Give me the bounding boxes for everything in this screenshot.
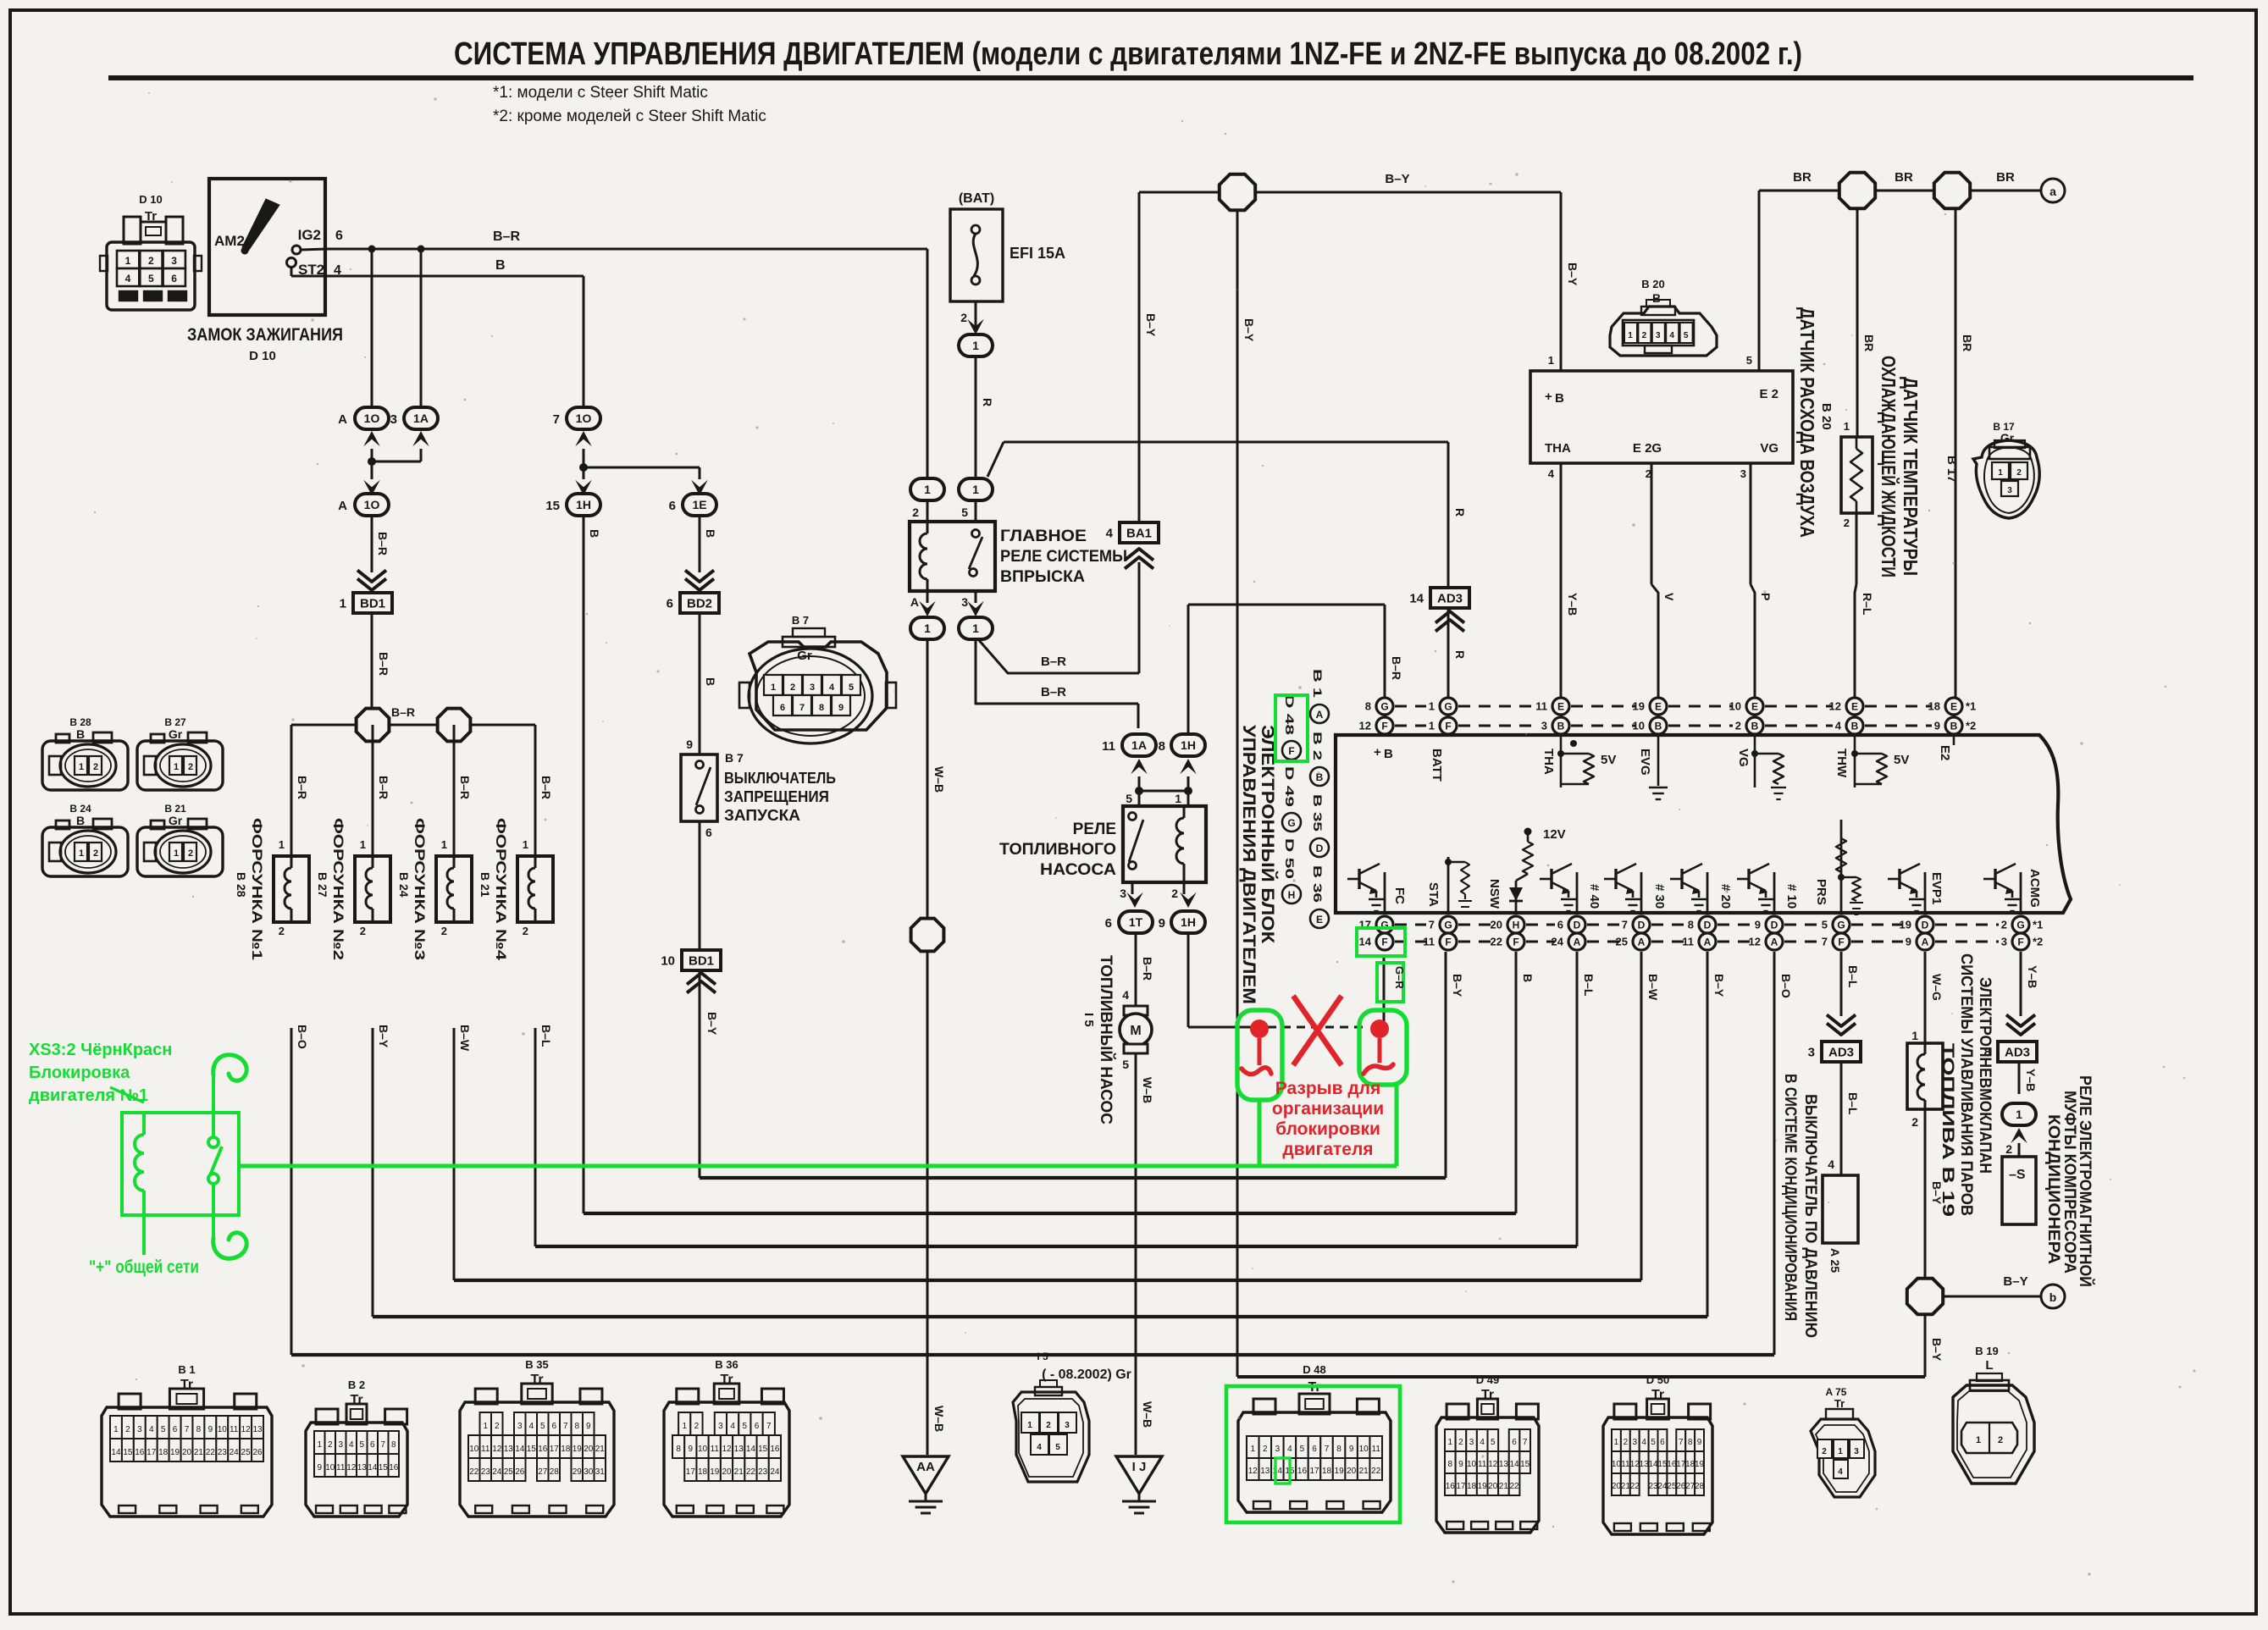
svg-text:6: 6: [1512, 1438, 1517, 1447]
svg-text:8: 8: [1448, 1460, 1453, 1469]
svg-text:B: B: [1652, 291, 1661, 305]
svg-text:2: 2: [360, 925, 366, 937]
wire R horizontal to AD3: [1004, 441, 1448, 444]
svg-text:5: 5: [1055, 1443, 1060, 1452]
svg-text:В 24: В 24: [397, 872, 411, 898]
svg-text:PRS: PRS: [1814, 879, 1828, 905]
svg-text:5: 5: [1746, 354, 1752, 367]
wire junction below 7(1O): [579, 449, 700, 472]
svg-text:22: 22: [1630, 1482, 1640, 1491]
svg-text:9: 9: [838, 703, 844, 713]
svg-text:2: 2: [1735, 720, 1741, 732]
svg-text:2: 2: [1844, 517, 1850, 529]
svg-text:18: 18: [1322, 1467, 1332, 1476]
svg-text:5: 5: [743, 1422, 748, 1431]
svg-text:E: E: [1950, 701, 1957, 713]
svg-text:УПРАВЛЕНИЯ ДВИГАТЕЛЕМ: УПРАВЛЕНИЯ ДВИГАТЕЛЕМ: [1239, 725, 1258, 1004]
svg-text:4: 4: [1106, 526, 1114, 540]
air flow sensor pin numbers: [1548, 354, 1752, 480]
svg-text:1A: 1A: [413, 412, 429, 425]
svg-text:21: 21: [1499, 1482, 1509, 1491]
connector oval 11(1A): [1102, 734, 1156, 756]
wire B-L to pressure switch: [1828, 1062, 1860, 1175]
wire bus B (ST2 to NSW): [584, 952, 1535, 1213]
connector face B27: [137, 716, 223, 790]
svg-text:B–Y: B–Y: [1566, 262, 1579, 286]
injector №3 (В 24): [436, 856, 472, 922]
svg-text:*2: *2: [2033, 936, 2043, 948]
wire to compressor clutch: [2005, 1142, 2019, 1157]
junction box 6 BD2: [667, 593, 719, 613]
svg-text:AM2: AM2: [214, 233, 245, 249]
svg-text:6: 6: [171, 273, 177, 285]
svg-text:17: 17: [550, 1445, 560, 1454]
svg-text:D 10: D 10: [249, 349, 276, 363]
svg-text:14: 14: [1510, 1460, 1520, 1469]
svg-text:E: E: [1655, 701, 1662, 713]
svg-text:3: 3: [810, 682, 815, 693]
arrow under oval A(1O): [363, 431, 380, 446]
svg-text:"+" общей сети: "+" общей сети: [89, 1257, 199, 1277]
svg-text:19: 19: [1478, 1482, 1488, 1491]
svg-text:*1: модели с Steer Shift Matic: *1: модели с Steer Shift Matic: [493, 84, 708, 102]
svg-text:B–R: B–R: [493, 229, 520, 244]
svg-text:3: 3: [2007, 486, 2012, 495]
wire branch to oval 3-1A: [418, 246, 425, 409]
svg-text:10: 10: [698, 1445, 708, 1454]
svg-text:1: 1: [1448, 1438, 1453, 1447]
fuel pump caption: [1081, 955, 1115, 1124]
wire B-Y bottom horizontal: [1237, 1375, 1925, 1379]
svg-text:13: 13: [1499, 1460, 1509, 1469]
wire B-R to fuel pump: [1122, 933, 1154, 1006]
svg-text:V: V: [1662, 593, 1676, 601]
svg-text:W–B: W–B: [1141, 1401, 1154, 1428]
svg-text:20: 20: [1347, 1467, 1357, 1476]
wire Y-B to oval: [2019, 1062, 2038, 1094]
svg-text:Tr: Tr: [720, 1373, 733, 1387]
svg-text:5: 5: [1651, 1438, 1656, 1447]
svg-text:B: B: [1316, 771, 1324, 783]
green wire horizontal: [239, 1164, 1397, 1169]
svg-text:A 75: A 75: [1826, 1386, 1847, 1398]
svg-text:Tr: Tr: [1481, 1388, 1494, 1402]
svg-text:РЕЛЕ СИСТЕМЫ: РЕЛЕ СИСТЕМЫ: [1000, 548, 1127, 566]
svg-text:НАСОСА: НАСОСА: [1040, 861, 1116, 879]
chevron above BD2: [685, 570, 714, 590]
svg-text:VG: VG: [1736, 749, 1751, 767]
svg-text:8: 8: [1159, 739, 1165, 754]
svg-text:16: 16: [538, 1445, 548, 1454]
svg-text:ДАТЧИК ТЕМПЕРАТУРЫ: ДАТЧИК ТЕМПЕРАТУРЫ: [1900, 377, 1922, 576]
svg-text:Блокировка: Блокировка: [29, 1064, 130, 1082]
svg-text:F: F: [2017, 937, 2023, 948]
svg-text:6: 6: [1660, 1438, 1665, 1447]
wire to injector 3 pin 1: [441, 725, 472, 856]
svg-text:16: 16: [770, 1445, 780, 1454]
svg-text:EVG: EVG: [1638, 749, 1652, 776]
svg-text:B: B: [1521, 974, 1535, 982]
wire B down to oval 7(1O): [583, 276, 585, 408]
svg-text:22: 22: [1510, 1482, 1520, 1491]
connector oval 9(1H): [1159, 911, 1205, 933]
svg-text:12: 12: [346, 1463, 357, 1473]
svg-text:A: A: [1638, 937, 1646, 948]
wire P VG to ECU: [1751, 463, 1773, 698]
svg-text:D 49: D 49: [1283, 766, 1297, 807]
svg-text:27: 27: [538, 1467, 548, 1477]
green wire vertical right: [1395, 1085, 1399, 1166]
coolant temperature sensor resistor (B17): [1841, 437, 1872, 513]
ECU VG load resistor: [1751, 733, 1786, 799]
svg-text:17: 17: [147, 1448, 157, 1457]
svg-text:6: 6: [1557, 919, 1563, 931]
svg-text:F: F: [1381, 721, 1387, 732]
wire bus B-Y (injector2 to #20): [373, 952, 1726, 1317]
svg-text:B–R: B–R: [539, 776, 553, 799]
svg-text:3: 3: [390, 412, 397, 427]
wire V E2G to ECU: [1651, 463, 1676, 698]
connector oval relay pinA: [910, 617, 944, 639]
wire B from ST2: [325, 258, 584, 276]
svg-text:BD2: BD2: [687, 596, 712, 611]
svg-text:26: 26: [1676, 1482, 1686, 1491]
green break box right: [1359, 1010, 1407, 1085]
fuel pump relay caption: [999, 821, 1116, 879]
wire from injector 3 pin 2: [441, 925, 472, 1052]
svg-text:AD3: AD3: [1828, 1045, 1854, 1059]
svg-text:4: 4: [1838, 1467, 1843, 1477]
green highlight box D48 F: [1275, 695, 1308, 761]
wire B-R down to ECU +B: [1385, 605, 1403, 698]
svg-text:B 7: B 7: [725, 751, 744, 765]
junction octagon on injector bus B: [438, 709, 471, 742]
svg-text:19: 19: [170, 1448, 180, 1457]
svg-text:28: 28: [550, 1467, 560, 1477]
connector face A75: [1811, 1386, 1875, 1497]
junction octagon BR 1: [1839, 173, 1875, 208]
svg-text:2: 2: [1911, 1115, 1918, 1129]
svg-text:14: 14: [746, 1445, 756, 1454]
svg-text:30: 30: [584, 1467, 594, 1477]
svg-text:20: 20: [1488, 1482, 1498, 1491]
svg-text:1: 1: [924, 622, 931, 635]
wire oval to relay box: [927, 500, 976, 522]
svg-text:Gr: Gr: [169, 727, 183, 741]
ECU driver #30: [1604, 864, 1641, 913]
svg-text:9: 9: [689, 1445, 694, 1454]
green break box left: [1237, 1010, 1282, 1100]
svg-text:МУФТЫ КОМПРЕССОРА: МУФТЫ КОМПРЕССОРА: [2061, 1091, 2078, 1274]
wire IG2 down to main relay: [927, 249, 929, 477]
svg-text:15: 15: [379, 1463, 389, 1473]
svg-text:11: 11: [1621, 1460, 1630, 1469]
wire bus B-Y (inhibit switch to STA): [700, 952, 1464, 1178]
svg-text:В 27: В 27: [316, 872, 329, 898]
svg-text:B: B: [1751, 721, 1759, 732]
svg-text:Tr: Tr: [180, 1378, 193, 1392]
svg-text:B 35: B 35: [525, 1358, 548, 1371]
svg-text:ТОПЛИВНЫЙ НАСОС: ТОПЛИВНЫЙ НАСОС: [1097, 955, 1115, 1124]
svg-text:13: 13: [252, 1425, 263, 1434]
svg-text:15: 15: [758, 1445, 768, 1454]
svg-text:G: G: [1287, 817, 1295, 829]
svg-text:R: R: [1453, 508, 1467, 517]
svg-text:2: 2: [1046, 1421, 1051, 1430]
ECU box (электронный блок управления двигателем): [1336, 735, 2071, 913]
svg-text:D 48: D 48: [1283, 694, 1297, 735]
svg-text:14: 14: [368, 1463, 378, 1473]
svg-text:20: 20: [722, 1467, 732, 1477]
wire R down to AD3 14: [1448, 442, 1467, 588]
wire from injector 2 pin 2: [360, 925, 390, 1048]
svg-text:4: 4: [125, 273, 131, 285]
svg-text:4: 4: [1828, 1158, 1834, 1171]
svg-text:1: 1: [1998, 468, 2003, 478]
svg-text:E: E: [1851, 701, 1858, 713]
wire to 6(1E): [691, 467, 708, 495]
svg-text:12: 12: [1488, 1460, 1498, 1469]
connector face B24: [42, 803, 128, 876]
arrow under 8(1H): [1180, 759, 1197, 774]
chevron below BA1: [1125, 549, 1153, 569]
svg-text:ФОРСУНКА №1: ФОРСУНКА №1: [249, 818, 265, 960]
junction box 4 BA1: [1106, 522, 1159, 543]
svg-text:24: 24: [492, 1467, 502, 1477]
svg-text:E2: E2: [1938, 745, 1952, 760]
svg-text:23: 23: [481, 1467, 491, 1477]
svg-text:D 10: D 10: [139, 193, 162, 206]
svg-text:11: 11: [1372, 1445, 1381, 1454]
wire B-R relay out lower: [976, 639, 1138, 728]
svg-text:*2: *2: [1966, 720, 1976, 732]
svg-text:B: B: [704, 529, 717, 538]
svg-text:9: 9: [1458, 1460, 1463, 1469]
svg-text:+: +: [1545, 390, 1552, 404]
injector №2 (В 27): [355, 856, 390, 922]
svg-text:R: R: [981, 398, 994, 406]
svg-text:BD1: BD1: [360, 596, 385, 611]
wire B-Y main vertical: [1237, 212, 1256, 1377]
air flow sensor box (датчик расхода воздуха B20): [1530, 371, 1793, 463]
svg-text:8: 8: [1336, 1445, 1341, 1454]
svg-text:12V: 12V: [1543, 827, 1566, 842]
wire bus B-W (injector3 to #30): [454, 952, 1660, 1280]
svg-text:I 5: I 5: [1081, 1013, 1096, 1027]
svg-text:ACMG: ACMG: [2027, 869, 2042, 908]
svg-text:18: 18: [1685, 1460, 1695, 1469]
air flow sensor label: [1796, 307, 1834, 538]
svg-text:3: 3: [1740, 467, 1746, 480]
ignition lock caption: [187, 325, 343, 363]
svg-text:A: A: [1922, 937, 1929, 948]
ECU bottom terminals: [1359, 916, 2044, 950]
svg-text:27: 27: [1685, 1482, 1695, 1491]
ECU bottom pin names: [1392, 869, 2042, 909]
svg-text:7: 7: [1622, 919, 1628, 931]
svg-text:9: 9: [1349, 1445, 1354, 1454]
label G-R: [1393, 966, 1406, 989]
ECU top pin names: [1374, 745, 1952, 782]
chevron above AD3 8: [2006, 1014, 2035, 1035]
connector oval A(1O) lower: [338, 494, 389, 516]
svg-text:8: 8: [391, 1440, 396, 1450]
svg-text:B 20: B 20: [1641, 278, 1664, 290]
svg-text:D 48: D 48: [1303, 1363, 1325, 1376]
svg-text:11: 11: [481, 1445, 490, 1454]
red X mark: [1293, 996, 1341, 1065]
chevron below 10 BD1: [687, 973, 716, 993]
svg-text:2: 2: [125, 1425, 130, 1434]
svg-text:3: 3: [1120, 887, 1126, 900]
svg-text:B–Y: B–Y: [705, 1012, 719, 1036]
svg-text:1H: 1H: [576, 498, 591, 511]
green relay (блокировка двигателя): [122, 1113, 239, 1215]
svg-text:E 2: E 2: [1759, 387, 1778, 401]
svg-text:I J: I J: [1132, 1460, 1147, 1474]
svg-text:11: 11: [711, 1445, 720, 1454]
svg-text:Y–B: Y–B: [2026, 965, 2039, 988]
svg-text:B 36: B 36: [715, 1358, 738, 1371]
svg-text:24: 24: [770, 1467, 780, 1477]
ECU driver #40: [1540, 864, 1577, 913]
svg-text:20: 20: [584, 1445, 594, 1454]
red annotation text: [1272, 1079, 1384, 1159]
svg-text:3: 3: [171, 255, 177, 267]
wire main relay pin2 oval: [912, 479, 936, 519]
svg-text:В 21: В 21: [478, 872, 492, 898]
ECU 5V pullup THW: [1851, 733, 1909, 787]
svg-text:B 21: B 21: [164, 803, 186, 815]
svg-text:В СИСТЕМЕ КОНДИЦИОНИРОВАНИЯ: В СИСТЕМЕ КОНДИЦИОНИРОВАНИЯ: [1781, 1074, 1799, 1321]
svg-text:BR: BR: [1961, 334, 1974, 351]
svg-text:ТОПЛИВНОГО: ТОПЛИВНОГО: [999, 841, 1116, 859]
svg-text:4: 4: [1641, 1438, 1646, 1447]
connector face B2: [306, 1379, 407, 1517]
connector face B35: [460, 1358, 614, 1517]
green wire vertical left: [1258, 1100, 1262, 1166]
svg-text:ДАТЧИК РАСХОДА ВОЗДУХА: ДАТЧИК РАСХОДА ВОЗДУХА: [1796, 307, 1818, 538]
svg-text:B: B: [1557, 721, 1565, 732]
wire B-Y octagon down: [1925, 1316, 1944, 1377]
wire R-L coolant sensor to ECU THW: [1844, 513, 1874, 698]
svg-text:B–Y: B–Y: [1712, 974, 1726, 997]
junction octagon on W-B wire: [911, 919, 944, 952]
svg-text:16: 16: [389, 1463, 399, 1473]
svg-text:1: 1: [174, 848, 179, 859]
wire BR to circle a: [1972, 170, 2041, 191]
svg-text:1H: 1H: [1181, 738, 1196, 752]
ground AA: [903, 1456, 949, 1513]
svg-text:B: B: [1655, 721, 1662, 732]
svg-text:ВЫКЛЮЧАТЕЛЬ ПО ДАВЛЕНИЮ: ВЫКЛЮЧАТЕЛЬ ПО ДАВЛЕНИЮ: [1801, 1094, 1819, 1338]
svg-text:B–Y: B–Y: [1930, 1181, 1944, 1205]
svg-text:F: F: [1381, 937, 1387, 948]
svg-text:B–Y: B–Y: [1930, 1338, 1944, 1362]
svg-text:25: 25: [1667, 1482, 1677, 1491]
svg-text:16: 16: [135, 1448, 145, 1457]
svg-text:A: A: [1704, 937, 1712, 948]
svg-text:B–Y: B–Y: [377, 1025, 390, 1048]
svg-text:11: 11: [1682, 936, 1694, 948]
svg-text:1: 1: [483, 1422, 488, 1431]
svg-text:2: 2: [441, 925, 447, 937]
red break dot right: [1364, 1019, 1393, 1074]
svg-text:5: 5: [1122, 1058, 1129, 1071]
ground 1J: [1116, 1456, 1162, 1513]
svg-text:2: 2: [328, 1440, 333, 1450]
wire B below 6(1E): [700, 516, 717, 572]
svg-text:B–W: B–W: [458, 1025, 472, 1052]
connector face B19: [1953, 1345, 2034, 1484]
svg-text:2: 2: [1263, 1445, 1268, 1454]
svg-text:1: 1: [1911, 1029, 1918, 1042]
svg-text:3: 3: [517, 1422, 523, 1431]
svg-text:9: 9: [1755, 919, 1761, 931]
junction octagon top B-Y: [1220, 174, 1255, 210]
svg-text:3: 3: [718, 1422, 723, 1431]
svg-text:B: B: [588, 529, 601, 538]
svg-text:1: 1: [771, 682, 776, 693]
svg-text:9: 9: [317, 1463, 322, 1473]
svg-text:4: 4: [149, 1425, 154, 1434]
svg-text:2: 2: [1822, 1447, 1827, 1456]
ECU driver FC: [1347, 864, 1385, 913]
svg-text:Tr: Tr: [1651, 1388, 1664, 1402]
svg-text:12: 12: [1248, 1467, 1258, 1476]
svg-text:B: B: [495, 258, 506, 273]
svg-text:организации: организации: [1272, 1099, 1384, 1119]
wire B-R from IG2: [325, 229, 927, 249]
svg-text:B–R: B–R: [376, 532, 390, 555]
svg-text:1: 1: [1429, 700, 1435, 713]
wire B-L PRS to AD3: [1841, 952, 1860, 1016]
svg-text:B–Y: B–Y: [1242, 318, 1256, 342]
svg-text:1: 1: [360, 838, 366, 851]
svg-text:A 25: A 25: [1828, 1248, 1842, 1273]
svg-text:19: 19: [1695, 1460, 1705, 1469]
svg-text:15: 15: [123, 1448, 133, 1457]
svg-text:15: 15: [1657, 1460, 1668, 1469]
svg-text:1: 1: [972, 483, 979, 496]
svg-text:14: 14: [1409, 591, 1424, 605]
svg-text:В 36: В 36: [1311, 865, 1325, 903]
svg-text:9: 9: [1159, 916, 1165, 931]
svg-text:BR: BR: [1793, 170, 1812, 185]
svg-text:B: B: [76, 814, 85, 827]
svg-text:13: 13: [1640, 1460, 1650, 1469]
injector №4 (В 21): [517, 856, 553, 922]
svg-text:12: 12: [722, 1445, 732, 1454]
svg-text:B 2: B 2: [348, 1379, 365, 1391]
svg-text:Tr: Tr: [145, 209, 157, 224]
svg-text:B–L: B–L: [1582, 974, 1596, 997]
svg-text:*1: *1: [2033, 919, 2043, 931]
label (BAT): [959, 191, 994, 206]
svg-text:Gr: Gr: [2000, 431, 2015, 445]
fuel pump motor (топливный насос I5): [1120, 1006, 1152, 1053]
svg-text:NSW: NSW: [1487, 879, 1502, 909]
svg-text:22: 22: [206, 1448, 216, 1457]
wire W-B pump to ground 1J: [1122, 1053, 1154, 1455]
svg-text:ВЫКЛЮЧАТЕЛЬ: ВЫКЛЮЧАТЕЛЬ: [724, 770, 836, 787]
svg-text:R–L: R–L: [1861, 593, 1874, 616]
svg-text:блокировки: блокировки: [1275, 1119, 1380, 1139]
svg-text:22: 22: [1491, 936, 1502, 948]
svg-text:A: A: [1316, 709, 1324, 721]
svg-text:24: 24: [230, 1448, 240, 1457]
svg-text:3: 3: [1656, 331, 1661, 340]
